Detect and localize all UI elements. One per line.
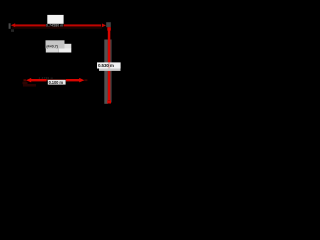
top dimension line right segment [64, 24, 102, 26]
red line tint through box H [108, 63, 110, 69]
svg-text:(4×0.7): (4×0.7) [46, 45, 58, 49]
corner grey box [106, 22, 111, 27]
top line lower glow [12, 26, 102, 29]
tooltip lower white box right part [64, 44, 71, 49]
left extension tick [9, 23, 11, 29]
background [0, 0, 128, 128]
vertical dimension line upper segment [108, 27, 111, 62]
top dimension line left segment [15, 24, 46, 26]
bottom dimension arrow left head [26, 78, 31, 83]
tooltip lower white box bottom strip right [59, 48, 72, 52]
label box H (white with value) [97, 62, 121, 68]
tooltip lower white box bottom strip left [46, 48, 59, 52]
svg-text:0.74580 m: 0.74580 m [46, 24, 63, 28]
vertical grey band right [110, 40, 111, 103]
top dimension arrow right head [102, 24, 106, 28]
svg-text:0.530 m: 0.530 m [98, 63, 114, 68]
bottom dimension line left segment [31, 79, 47, 81]
shadow strip under box H [99, 69, 121, 71]
bottom line left fade [24, 79, 27, 81]
faint glow below box D [23, 84, 36, 87]
vertical dimension line lower segment [108, 69, 111, 101]
vertical dimension arrow up head [107, 27, 111, 30]
bottom dimension line right segment [66, 79, 80, 81]
top dimension arrow left head [11, 23, 15, 27]
label box W (white, empty) [47, 15, 63, 24]
bottom dimension arrow right head [79, 78, 84, 83]
bottom line right fade [84, 79, 87, 81]
vertical grey band left [104, 40, 108, 104]
bottom dimension line dim middle segment [47, 79, 67, 81]
faint glow below left arrow [23, 82, 28, 85]
tick smudge [11, 29, 14, 32]
vertical dimension arrow down head [107, 100, 111, 103]
label box D (white with value) [48, 80, 66, 85]
svg-text:0.100 m: 0.100 m [49, 80, 64, 85]
tooltip grey box [46, 40, 65, 48]
